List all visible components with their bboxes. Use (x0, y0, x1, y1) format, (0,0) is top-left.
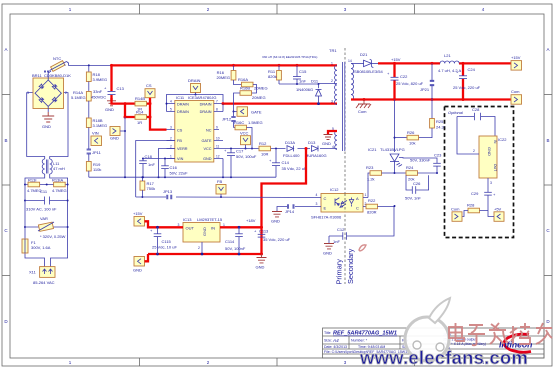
port +5V (optional) (488, 207, 504, 222)
ground below bridge (42, 112, 54, 129)
svg-text:C28: C28 (472, 107, 480, 112)
resistor R18 (86, 65, 107, 82)
svg-text:820k: 820k (268, 74, 277, 79)
capacitor C26 (405, 175, 429, 200)
svg-text:1nF: 1nF (148, 162, 155, 167)
capacitor C23 (410, 153, 442, 174)
choke L11 (42, 159, 65, 174)
svg-text:DRAIN: DRAIN (177, 110, 189, 114)
capacitor C24 (453, 63, 481, 99)
svg-text:A: A (546, 47, 549, 52)
svg-text:SFH617A-X3006: SFH617A-X3006 (311, 215, 342, 220)
svg-text:A: A (356, 196, 359, 201)
isolation boundary over IC12 (344, 194, 346, 213)
svg-text:2: 2 (473, 149, 475, 153)
svg-text:ICE3AR4780JG: ICE3AR4780JG (188, 95, 216, 100)
svg-text:25 Vdc, 220 uF: 25 Vdc, 220 uF (453, 85, 481, 90)
wire FB bus (136, 196, 315, 198)
svg-text:R13I: R13I (28, 178, 36, 183)
svg-text:E: E (324, 205, 327, 210)
wire +DC bus (red top rail) (110, 64, 337, 67)
svg-text:D13: D13 (308, 140, 316, 145)
svg-text:VAR: VAR (40, 216, 48, 221)
wire AC input loop (24, 93, 69, 267)
op-amp/controller IC11 ICE3AR4780JG (167, 95, 224, 162)
svg-text:450VDC: 450VDC (91, 95, 106, 100)
fuse F1 (22, 239, 51, 253)
svg-text:DRAIN: DRAIN (200, 110, 212, 114)
svg-text:20MEG: 20MEG (252, 95, 266, 100)
svg-text:35 Vdc, 220 uF: 35 Vdc, 220 uF (263, 237, 291, 242)
svg-text:750k: 750k (147, 186, 156, 191)
wire NTC to DC bus (67, 62, 112, 67)
svg-text:47 mH: 47 mH (53, 166, 65, 171)
svg-text:+15V: +15V (391, 57, 401, 62)
svg-text:R28: R28 (467, 203, 475, 208)
ground below C13 (105, 101, 116, 112)
svg-text:GND: GND (42, 124, 51, 129)
resistor R13IA (46, 178, 67, 194)
shunt regulator IC21 TL431 (368, 147, 437, 173)
svg-text:12: 12 (216, 155, 220, 159)
svg-text:10k: 10k (409, 141, 415, 146)
svg-text:50V, 22uF: 50V, 22uF (170, 171, 189, 176)
watermark curl (359, 245, 366, 251)
svg-text:VIN: VIN (92, 131, 99, 136)
svg-text:2: 2 (170, 137, 172, 141)
svg-text:R16A: R16A (238, 77, 248, 82)
optional section (dashed box) (445, 107, 514, 238)
wire secondary-side gnd rail (red) (148, 253, 263, 256)
thermistor NTC (48, 56, 66, 73)
svg-text:OUT: OUT (493, 164, 497, 171)
svg-text:JP14: JP14 (285, 209, 295, 214)
svg-text:C115: C115 (162, 239, 172, 244)
svg-text:2: 2 (170, 145, 172, 149)
svg-text:2: 2 (198, 246, 200, 250)
wire FB pin to divider (136, 141, 175, 198)
svg-text:GND: GND (487, 147, 492, 156)
svg-text:3: 3 (331, 100, 333, 104)
svg-text:GND: GND (110, 136, 119, 141)
resistor R16 (216, 65, 235, 80)
svg-text:R22: R22 (368, 198, 376, 203)
svg-text:3.1MEG: 3.1MEG (93, 123, 108, 128)
resistor R17 (140, 176, 155, 198)
svg-text:TL431BVLPG: TL431BVLPG (380, 147, 405, 152)
wire DRAIN tie (166, 94, 225, 112)
svg-text:BR11: BR11 (32, 73, 42, 78)
wire VCC aux (red) (260, 147, 308, 254)
svg-text:R14: R14 (136, 110, 144, 115)
svg-text:D13A: D13A (285, 140, 295, 145)
watermark (359, 298, 528, 368)
connector X11 (29, 267, 55, 285)
capacitor C18 (139, 154, 155, 178)
svg-text:330 uH (64:11:8) EE20/10/6 TP4: 330 uH (64:11:8) EE20/10/6 TP4A(TDG) (262, 55, 317, 59)
svg-text:B: B (546, 138, 549, 143)
svg-text:SB0810B-E3/54: SB0810B-E3/54 (354, 69, 383, 74)
svg-text:9: 9 (216, 126, 218, 130)
wire VCC row (223, 148, 337, 150)
wire GND pin to bus (222, 159, 224, 178)
svg-text:IC12: IC12 (330, 187, 339, 192)
svg-text:REF_5AR4770AG_15W1: REF_5AR4770AG_15W1 (333, 331, 397, 337)
svg-text:20MEG: 20MEG (254, 86, 268, 91)
svg-text:C22: C22 (400, 74, 408, 79)
jumper JP21 (420, 63, 434, 99)
svg-text:C13: C13 (117, 86, 125, 91)
svg-text:IC21: IC21 (368, 147, 377, 152)
svg-text:FB: FB (217, 179, 222, 184)
svg-text:R16C: R16C (234, 120, 244, 125)
svg-text:1.2k: 1.2k (367, 177, 375, 182)
svg-text:R23: R23 (366, 165, 374, 170)
port GATE (234, 107, 262, 117)
svg-text:OUT: OUT (186, 226, 195, 231)
resistor R22 (366, 198, 396, 215)
transformer TR1 (262, 48, 354, 151)
port DRAIN (188, 78, 201, 95)
svg-text:3: 3 (316, 202, 318, 206)
port CS (145, 83, 155, 104)
svg-text:1: 1 (365, 193, 367, 197)
wire VIN row (143, 158, 175, 160)
svg-text:NC: NC (206, 128, 212, 132)
resistor R16B (233, 86, 266, 113)
svg-text:R24: R24 (406, 165, 414, 170)
svg-text:VCC: VCC (203, 147, 211, 151)
svg-text:R14B: R14B (135, 96, 145, 101)
svg-text:1: 1 (170, 155, 172, 159)
svg-text:R12: R12 (259, 141, 267, 146)
svg-text:7: 7 (216, 100, 218, 104)
svg-text:R16B: R16B (240, 86, 250, 91)
ground (below C113) (256, 254, 267, 270)
svg-text:35 Vdc, 22 uF: 35 Vdc, 22 uF (282, 166, 307, 171)
port +15V (right) (511, 55, 522, 70)
svg-text:CD3KB80-D1K: CD3KB80-D1K (44, 73, 71, 78)
resistor R12 (259, 141, 271, 157)
resistor R13I (25, 178, 68, 194)
svg-text:+15V: +15V (511, 55, 521, 60)
svg-text:10: 10 (216, 137, 220, 141)
capacitor C28 (457, 107, 495, 136)
capacitor C114 (225, 227, 246, 254)
optocoupler IC12 SFH617A (311, 187, 368, 220)
svg-text:GATE: GATE (201, 139, 212, 143)
svg-text:820R: 820R (367, 210, 377, 215)
svg-text:C14: C14 (282, 160, 290, 165)
svg-text:IC22: IC22 (498, 137, 507, 142)
svg-text:310V AC, 100 nF: 310V AC, 100 nF (26, 207, 57, 212)
wire snubber bottom / diode D11 (279, 79, 337, 104)
svg-text:GND: GND (202, 227, 207, 236)
wire VERR to bus (159, 149, 175, 178)
svg-text:+5V: +5V (494, 207, 502, 212)
svg-text:10R: 10R (261, 152, 268, 157)
svg-text:GND: GND (256, 265, 265, 270)
svg-text:Com: Com (511, 89, 520, 94)
svg-text:+18V: +18V (246, 218, 256, 223)
svg-text:1nF: 1nF (333, 239, 340, 244)
title block (323, 328, 545, 358)
jumper JP13 (163, 189, 173, 199)
varistor VAR (25, 216, 68, 239)
diode D13 (305, 140, 327, 158)
resistor R19 (86, 157, 101, 177)
svg-text:C114: C114 (225, 239, 235, 244)
resistor R14A (71, 82, 91, 102)
capacitor C16 (161, 159, 188, 178)
svg-text:11: 11 (216, 145, 220, 149)
resistor R18B (86, 101, 107, 128)
svg-text:* 320V, 0.25W: * 320V, 0.25W (40, 234, 66, 239)
svg-text:VCC: VCC (240, 130, 249, 135)
wire +15V rail (red) (378, 57, 511, 65)
capacitor C14 (269, 149, 307, 178)
infineon logo (499, 334, 532, 352)
svg-text:20MEG: 20MEG (216, 75, 230, 80)
port Com (right) (511, 89, 522, 104)
svg-text:85-264 VAC: 85-264 VAC (33, 280, 55, 285)
infineon logo texts (443, 333, 486, 351)
resistor R26 (395, 130, 419, 146)
svg-text:Com: Com (358, 109, 367, 114)
jumper JP14 (277, 204, 315, 214)
svg-text:FB: FB (177, 139, 182, 143)
svg-text:14: 14 (348, 59, 352, 63)
node label Secondary (346, 248, 355, 284)
svg-text:50V, 1nF: 50V, 1nF (405, 196, 421, 201)
svg-text:50V, 100uF: 50V, 100uF (236, 154, 257, 159)
port Com (optional) (451, 207, 462, 222)
svg-text:CS: CS (177, 128, 183, 132)
svg-text:1.5MEG: 1.5MEG (248, 120, 263, 125)
port VIN (89, 128, 102, 147)
svg-text:Size:: Size: (324, 339, 332, 343)
svg-text:5: 5 (170, 108, 172, 112)
svg-text:VERR: VERR (177, 147, 188, 151)
svg-text:1N4006G: 1N4006G (296, 87, 313, 92)
port GND (sense divider return) (110, 127, 120, 141)
svg-text:TR1: TR1 (329, 48, 337, 53)
ground (C12) (323, 244, 334, 256)
svg-text:110k: 110k (93, 167, 101, 172)
svg-text:A: A (4, 47, 7, 52)
svg-text:LM2937ET-15: LM2937ET-15 (197, 217, 223, 222)
svg-text:R25: R25 (436, 119, 444, 124)
svg-text:1: 1 (331, 62, 333, 66)
svg-text:50V, 100nF: 50V, 100nF (225, 246, 246, 251)
wire feedback sense (394, 100, 396, 153)
svg-text:Number: *: Number: * (351, 339, 368, 343)
svg-text:C26: C26 (413, 181, 421, 186)
svg-text:C15: C15 (299, 69, 307, 74)
capacitor C22 (387, 63, 424, 99)
inductor L21 (438, 53, 461, 73)
ground (JP14) (271, 212, 282, 224)
wire secondary return rail (red) (351, 98, 511, 101)
resistor R28 (462, 203, 488, 217)
jumper JP12 (222, 112, 236, 128)
svg-text:33nF: 33nF (93, 89, 103, 94)
capacitor C11 (25, 189, 68, 212)
svg-text:X11: X11 (29, 270, 37, 275)
svg-text:DRAIN: DRAIN (177, 102, 189, 106)
svg-text:3.9MEG: 3.9MEG (93, 77, 108, 82)
svg-text:MURA160G: MURA160G (305, 153, 327, 158)
wire lower bus (left) (89, 176, 276, 178)
resistor R14B (135, 96, 147, 112)
svg-text:JP12: JP12 (222, 117, 232, 122)
capacitor C115 (150, 227, 177, 254)
svg-text:C16: C16 (170, 165, 178, 170)
svg-text:4.7MEG: 4.7MEG (52, 188, 67, 193)
svg-text:Com: Com (451, 207, 460, 212)
svg-text:CS: CS (146, 83, 152, 88)
svg-text:2: 2 (331, 79, 333, 83)
svg-text:IN: IN (211, 226, 215, 231)
svg-text:GND: GND (133, 268, 142, 273)
svg-text:GATE: GATE (251, 110, 262, 115)
svg-text:Title: Title (324, 331, 331, 335)
bridge rectifier BR11 (27, 70, 71, 112)
svg-text:1nF: 1nF (299, 79, 306, 84)
svg-text:GND: GND (323, 251, 332, 256)
svg-text:JP13: JP13 (163, 189, 173, 194)
svg-text:NTC: NTC (53, 56, 61, 61)
capacitor C15 (snubber) (293, 65, 307, 84)
jumper JP11 (87, 146, 102, 157)
svg-text:C12: C12 (337, 227, 345, 232)
svg-text:D11: D11 (311, 79, 319, 84)
wire IC13 in (red) (220, 218, 262, 229)
svg-text:C113: C113 (259, 229, 269, 234)
watermark chinese characters (stylized) (449, 323, 552, 345)
svg-text:8: 8 (216, 108, 218, 112)
svg-text:VIN: VIN (177, 157, 184, 161)
capacitor C113 (254, 229, 291, 243)
wire drain rail (red) (223, 102, 337, 111)
svg-text:IC11: IC11 (176, 95, 185, 100)
capacitor C29 (471, 191, 496, 211)
svg-text:R26: R26 (407, 130, 415, 135)
svg-text:3: 3 (27, 91, 29, 95)
svg-text:4: 4 (316, 193, 318, 197)
svg-text:R13IA: R13IA (52, 178, 63, 183)
port VCC (240, 130, 251, 149)
resistor R16A (234, 77, 268, 93)
capacitor C13 (bulk) (91, 65, 125, 100)
resistor R14 (135, 110, 147, 126)
svg-text:2: 2 (65, 91, 67, 95)
svg-text:A4: A4 (332, 338, 339, 343)
svg-text:GND: GND (105, 107, 114, 112)
svg-text:B: B (4, 138, 7, 143)
diode D21 (351, 52, 383, 74)
svg-text:DRAIN: DRAIN (188, 78, 201, 83)
svg-text:300V, 1.6A: 300V, 1.6A (31, 245, 51, 250)
svg-text:DRAIN: DRAIN (200, 102, 212, 106)
resistor R24 (395, 165, 439, 182)
svg-text:C23: C23 (434, 153, 442, 158)
isolation boundary (dashed) (344, 48, 346, 284)
svg-text:4.7MEG: 4.7MEG (27, 188, 42, 193)
svg-text:Optional: Optional (448, 110, 463, 115)
regulator IC22 (457, 117, 507, 193)
svg-text:GND: GND (203, 157, 212, 161)
diode D13A (283, 140, 300, 158)
svg-text:C24: C24 (468, 67, 476, 72)
svg-text:Secondary: Secondary (346, 248, 355, 284)
svg-text:25 Vdc, 820 uF: 25 Vdc, 820 uF (396, 81, 424, 86)
svg-text:L21: L21 (444, 53, 451, 58)
resistor R16C (234, 120, 263, 150)
resistor R11 (snubber) (268, 65, 281, 84)
node label Primary (335, 259, 344, 285)
svg-text:JP11: JP11 (92, 150, 102, 155)
svg-text:D21: D21 (360, 52, 368, 57)
resistor R23 (366, 165, 396, 198)
svg-text:JP21: JP21 (420, 87, 430, 92)
svg-text:Date: 4/3/2013: Date: 4/3/2013 (324, 345, 347, 349)
svg-text:3: 3 (490, 181, 492, 185)
svg-text:4: 4 (170, 100, 172, 104)
svg-text:C: C (356, 205, 359, 210)
ground aux winding (322, 135, 333, 147)
svg-text:1R: 1R (137, 120, 142, 125)
svg-text:GND: GND (271, 219, 280, 224)
svg-text:C17: C17 (236, 149, 244, 154)
regulator IC13 LM2937 (178, 217, 226, 254)
port +15V (IC13 out) (133, 211, 183, 229)
svg-text:GND: GND (322, 141, 331, 146)
svg-text:FDLL400: FDLL400 (283, 153, 300, 158)
svg-text:Primary: Primary (335, 259, 344, 285)
svg-text:+15V: +15V (133, 211, 143, 216)
svg-text:3: 3 (170, 126, 172, 130)
svg-text:C: C (324, 196, 327, 201)
svg-text:5.1MEG: 5.1MEG (71, 95, 86, 100)
svg-text:IN: IN (493, 140, 497, 144)
port FB (216, 179, 226, 197)
svg-text:www.elecfans.com: www.elecfans.com (359, 347, 528, 368)
chassis Com symbol (356, 100, 371, 115)
capacitor C17 (224, 148, 257, 177)
svg-text:25 Vdc, 10 uF: 25 Vdc, 10 uF (152, 245, 177, 250)
svg-text:C29: C29 (471, 191, 479, 196)
svg-text:IC13: IC13 (183, 217, 192, 222)
wire CS sense (red) (112, 98, 167, 178)
resistor R25 (419, 100, 446, 138)
svg-text:50V, 330nF: 50V, 330nF (410, 158, 431, 163)
wire aux pin to ground (red) (328, 131, 337, 134)
capacitor C12 (329, 206, 394, 244)
port GND (IC13) (133, 254, 148, 273)
